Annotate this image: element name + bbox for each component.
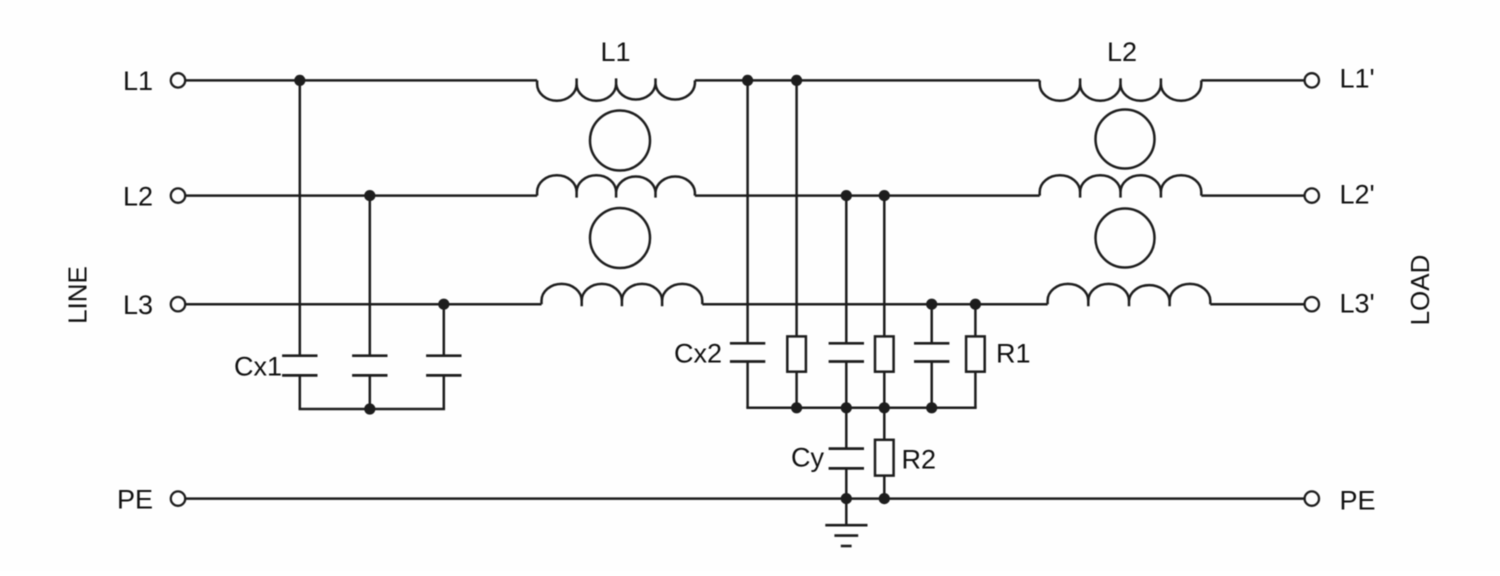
svg-text:R1: R1	[996, 339, 1031, 369]
svg-text:L2': L2'	[1340, 180, 1375, 210]
capacitor Cx1 b	[352, 356, 387, 376]
svg-text:L3: L3	[123, 290, 153, 320]
node L1-Cx1	[294, 75, 305, 86]
svg-text:Cx1: Cx1	[234, 352, 282, 382]
wire from L3 down to resistor R1	[974, 304, 977, 336]
terminal L1 (line side)	[171, 73, 185, 87]
capacitor Cx2 b	[829, 343, 864, 361]
wire from L2 down to Cx1 cap b	[369, 196, 372, 356]
wire PE to ground	[845, 499, 848, 526]
node Cx1 bus	[364, 403, 375, 414]
wire Cx2 b to bus	[845, 362, 848, 408]
wire L3 right segment	[1210, 303, 1304, 306]
capacitor Cx1 a	[282, 356, 317, 376]
wire L3 middle segment	[702, 303, 1047, 306]
node L1-resistor a	[791, 75, 802, 86]
inductor L2 winding phase1	[1040, 78, 1202, 100]
inductor L1 winding phase1	[537, 78, 695, 100]
terminal L3' (load side)	[1305, 297, 1319, 311]
node bus-resistor a	[791, 402, 802, 413]
wire from L2 down to Cx2 cap b	[845, 196, 848, 344]
inductor L2 winding phase3	[1048, 284, 1211, 306]
terminal L2' (load side)	[1305, 188, 1319, 202]
resistor b body	[875, 336, 894, 371]
wire resistor b to bus	[883, 372, 886, 408]
svg-text:L2: L2	[123, 181, 153, 211]
wire L2 left segment	[185, 194, 537, 197]
core circle of choke L2 lower	[1096, 209, 1155, 268]
svg-text:R2: R2	[902, 445, 937, 475]
node bus-R2	[879, 402, 890, 413]
svg-text:LINE: LINE	[63, 266, 93, 324]
wire PE	[185, 497, 1304, 500]
core circle of choke L1 lower	[590, 208, 650, 268]
wire from L1 down to Cx2 cap a	[746, 80, 749, 343]
svg-text:Cx2: Cx2	[674, 339, 722, 369]
node L3-R1	[970, 299, 981, 310]
svg-text:LOAD: LOAD	[1405, 255, 1435, 326]
wire bus down to capacitor Cy	[845, 408, 848, 449]
wire bus down to resistor R2	[883, 408, 886, 440]
node L2-resistor b	[879, 190, 890, 201]
svg-text:L2: L2	[1107, 37, 1137, 67]
resistor R2 body	[875, 440, 894, 476]
ground	[825, 525, 867, 546]
node L1-Cx2	[742, 75, 753, 86]
capacitor Cx1 c	[426, 356, 461, 376]
svg-text:L1': L1'	[1340, 64, 1375, 94]
inductor L1 winding phase3	[542, 284, 703, 306]
wire Cx1 b to bus	[369, 375, 372, 409]
terminal L1' (load side)	[1305, 73, 1319, 87]
wire R2 to PE	[883, 476, 886, 499]
node L3-Cx1	[438, 299, 449, 310]
wire L2 middle segment	[695, 194, 1040, 197]
wire Cy to PE	[845, 468, 848, 498]
wire L1 left segment	[185, 79, 537, 82]
inductor L2 winding phase2	[1040, 175, 1202, 197]
core circle of choke L2 upper	[1096, 110, 1155, 169]
inductor L1 winding phase2	[537, 175, 695, 197]
node PE-Cy	[841, 493, 852, 504]
svg-text:L1: L1	[123, 66, 153, 96]
capacitor Cx2 a	[730, 343, 765, 361]
wire Cx2 a to bus	[746, 362, 749, 408]
terminal L2 (line side)	[171, 188, 185, 202]
wire Cx2 c to bus	[930, 362, 933, 408]
wire Cx2 bottom bus	[748, 407, 976, 410]
wire L2 right segment	[1201, 194, 1304, 197]
svg-text:PE: PE	[117, 484, 153, 514]
wire L3 left segment	[185, 303, 541, 306]
terminal L3 (line side)	[171, 297, 185, 311]
wire from L3 down to Cx2 cap c	[930, 304, 933, 343]
wire Cx1 c to bus	[443, 375, 446, 409]
core circle of choke L1 upper	[590, 111, 650, 171]
terminal PE (load side)	[1305, 491, 1319, 505]
node bus-Cx2 c	[926, 402, 937, 413]
wire resistor a to bus	[795, 372, 798, 408]
node bus-Cy	[841, 402, 852, 413]
wire from L1 down to Cx1 cap a	[299, 80, 302, 355]
svg-text:L3': L3'	[1340, 289, 1375, 319]
wire from L1 down to resistor a	[795, 80, 798, 336]
wire resistor R1 to bus	[974, 372, 977, 408]
capacitor Cx2 c	[914, 343, 949, 361]
node L3-Cx2	[926, 299, 937, 310]
wire from L2 down to resistor b	[883, 196, 886, 337]
resistor R1 body	[966, 336, 985, 371]
wire Cx1 bottom bus	[300, 408, 444, 411]
terminal PE (line side)	[171, 491, 185, 505]
wire Cx1 a to bus	[299, 375, 302, 409]
node PE-R2	[879, 493, 890, 504]
capacitor Cy	[829, 449, 864, 469]
svg-text:L1: L1	[600, 37, 630, 67]
wire L1 right segment	[1201, 79, 1304, 82]
node L2-Cx1	[364, 190, 375, 201]
wire from L3 down to Cx1 cap c	[443, 304, 446, 356]
node L2-Cx2	[841, 190, 852, 201]
resistor a body	[787, 336, 806, 371]
wire L1 middle segment	[695, 79, 1040, 82]
svg-text:Cy: Cy	[791, 443, 824, 473]
svg-text:PE: PE	[1340, 486, 1376, 516]
